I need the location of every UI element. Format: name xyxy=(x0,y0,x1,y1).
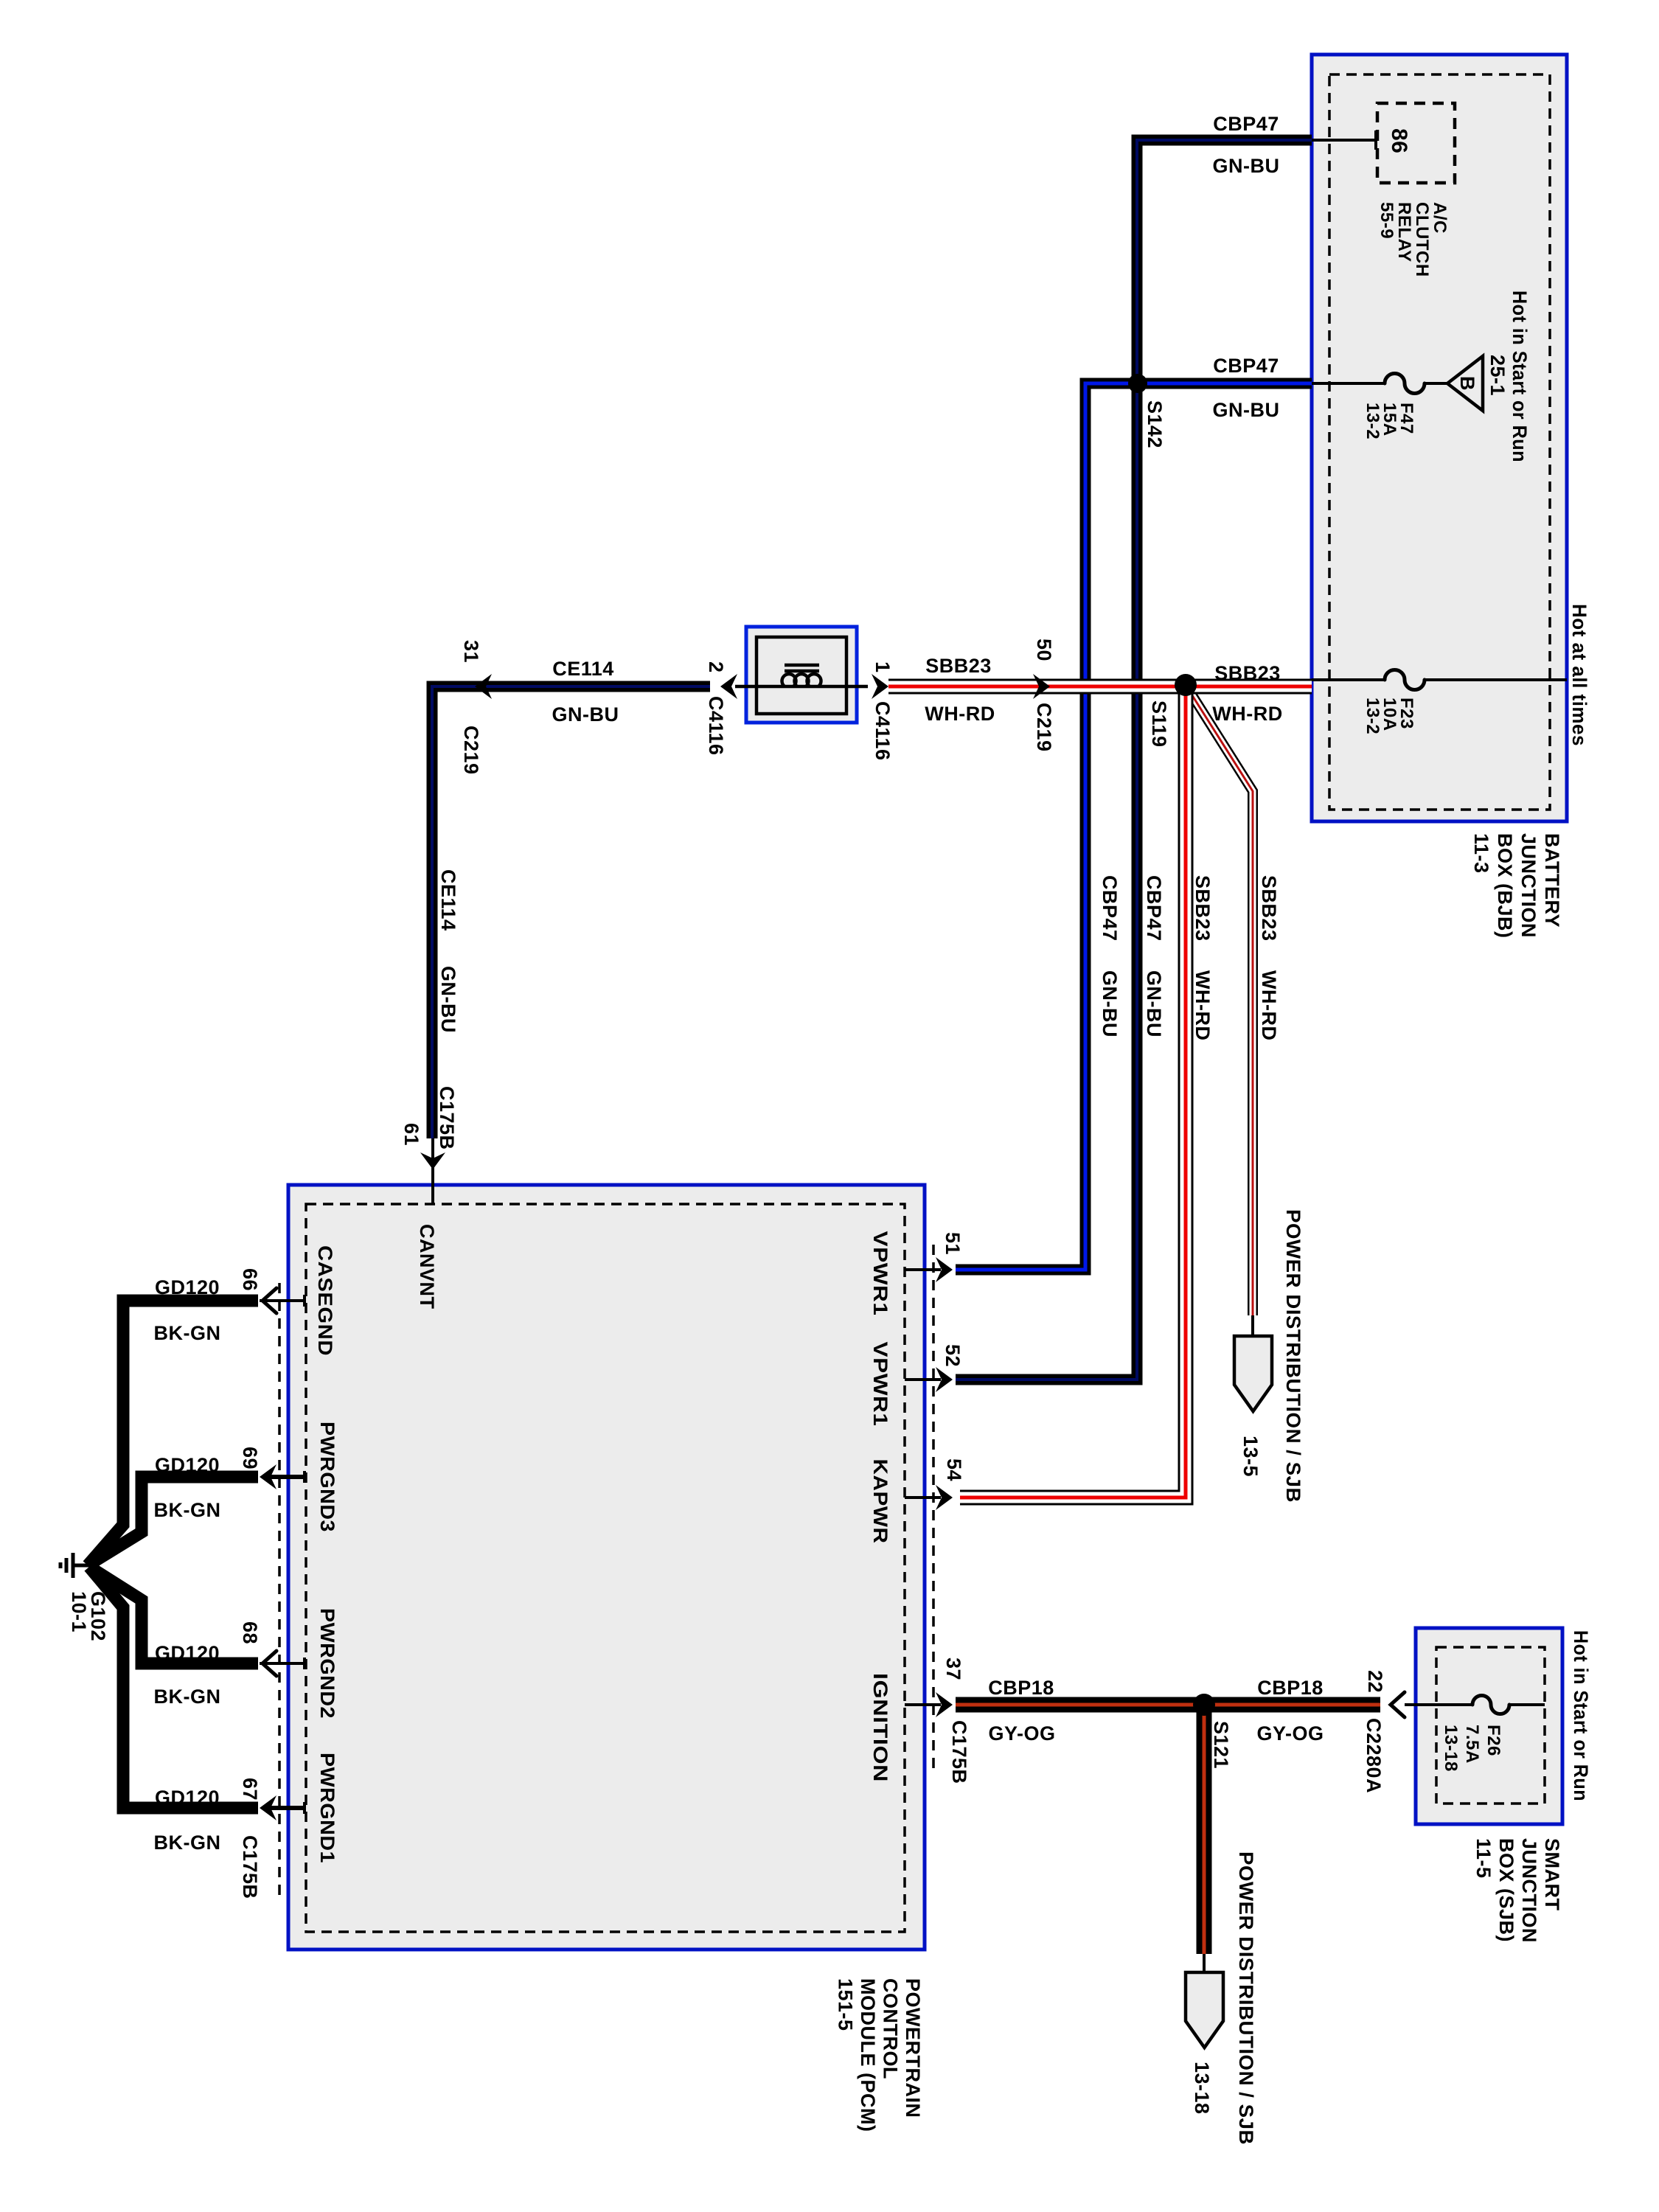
svg-text:37: 37 xyxy=(942,1658,964,1680)
svg-text:1: 1 xyxy=(872,661,894,673)
svg-text:VPWR1: VPWR1 xyxy=(869,1342,891,1427)
svg-text:GY-OG: GY-OG xyxy=(988,1722,1055,1745)
svg-text:GN-BU: GN-BU xyxy=(552,703,619,726)
svg-text:BK-GN: BK-GN xyxy=(154,1322,221,1344)
svg-text:GD120: GD120 xyxy=(155,1787,220,1809)
svg-text:VPWR1: VPWR1 xyxy=(869,1231,891,1316)
svg-text:GD120: GD120 xyxy=(155,1276,220,1298)
svg-text:BK-GN: BK-GN xyxy=(154,1686,221,1708)
svg-text:61: 61 xyxy=(400,1123,422,1146)
svg-text:CBP47: CBP47 xyxy=(1213,113,1279,135)
svg-text:31: 31 xyxy=(460,640,482,663)
svg-text:S119: S119 xyxy=(1148,700,1170,748)
svg-text:CANVNT: CANVNT xyxy=(416,1224,438,1310)
svg-text:GN-BU: GN-BU xyxy=(1143,970,1165,1037)
svg-text:SBB23: SBB23 xyxy=(1258,875,1280,942)
svg-text:52: 52 xyxy=(942,1344,964,1367)
svg-text:BK-GN: BK-GN xyxy=(154,1499,221,1521)
svg-text:C4116: C4116 xyxy=(705,696,727,756)
svg-text:13-5: 13-5 xyxy=(1239,1436,1262,1477)
svg-text:GD120: GD120 xyxy=(155,1454,220,1476)
svg-text:IGNITION: IGNITION xyxy=(869,1673,891,1782)
svg-text:CBP18: CBP18 xyxy=(1257,1677,1324,1699)
svg-text:66: 66 xyxy=(239,1268,261,1291)
svg-text:2: 2 xyxy=(705,661,727,673)
svg-text:25-1: 25-1 xyxy=(1486,355,1509,396)
svg-text:CE114: CE114 xyxy=(552,658,614,680)
svg-text:POWER DISTRIBUTION / SJB: POWER DISTRIBUTION / SJB xyxy=(1282,1209,1304,1503)
svg-text:B: B xyxy=(1456,376,1478,391)
svg-text:51: 51 xyxy=(942,1232,964,1255)
svg-text:SBB23: SBB23 xyxy=(1192,875,1214,942)
svg-text:C175B: C175B xyxy=(436,1086,458,1150)
svg-text:WH-RD: WH-RD xyxy=(1212,703,1282,725)
svg-text:13-18: 13-18 xyxy=(1191,2062,1213,2115)
svg-text:CBP47: CBP47 xyxy=(1143,875,1165,942)
svg-text:22: 22 xyxy=(1364,1670,1386,1693)
svg-text:C4116: C4116 xyxy=(872,701,894,761)
svg-text:C2280A: C2280A xyxy=(1363,1718,1385,1793)
svg-text:50: 50 xyxy=(1033,639,1055,661)
svg-text:CBP18: CBP18 xyxy=(988,1677,1054,1699)
svg-text:S142: S142 xyxy=(1144,400,1166,448)
svg-text:CBP47: CBP47 xyxy=(1099,875,1121,942)
svg-text:67: 67 xyxy=(239,1778,261,1801)
svg-text:Hot in Start or Run: Hot in Start or Run xyxy=(1570,1630,1592,1801)
svg-text:KAPWR: KAPWR xyxy=(869,1459,891,1544)
svg-text:Hot at all times: Hot at all times xyxy=(1568,604,1590,746)
svg-text:F2310A13-2: F2310A13-2 xyxy=(1363,698,1416,734)
svg-text:69: 69 xyxy=(239,1447,261,1470)
svg-text:WH-RD: WH-RD xyxy=(1192,970,1214,1040)
svg-text:CBP47: CBP47 xyxy=(1213,355,1279,377)
svg-text:Hot in Start or Run: Hot in Start or Run xyxy=(1509,291,1531,462)
svg-text:GN-BU: GN-BU xyxy=(1213,155,1280,177)
svg-text:54: 54 xyxy=(943,1458,965,1481)
svg-text:GN-BU: GN-BU xyxy=(1099,970,1121,1037)
svg-text:WH-RD: WH-RD xyxy=(1258,970,1280,1040)
svg-text:GD120: GD120 xyxy=(155,1642,220,1664)
svg-text:GN-BU: GN-BU xyxy=(1213,399,1280,421)
svg-text:WH-RD: WH-RD xyxy=(925,703,995,725)
svg-text:BK-GN: BK-GN xyxy=(154,1832,221,1854)
svg-text:CASEGND: CASEGND xyxy=(314,1245,336,1356)
svg-text:PWRGND1: PWRGND1 xyxy=(316,1753,338,1863)
svg-text:68: 68 xyxy=(239,1621,261,1644)
svg-text:C175B: C175B xyxy=(239,1835,261,1899)
svg-text:GY-OG: GY-OG xyxy=(1256,1722,1324,1745)
svg-text:CE114: CE114 xyxy=(437,869,459,931)
svg-text:C219: C219 xyxy=(1033,703,1055,752)
svg-text:SBB23: SBB23 xyxy=(925,655,992,677)
svg-text:GN-BU: GN-BU xyxy=(437,966,459,1033)
svg-text:PWRGND2: PWRGND2 xyxy=(316,1608,338,1719)
svg-text:POWER DISTRIBUTION / SJB: POWER DISTRIBUTION / SJB xyxy=(1235,1851,1257,2145)
svg-text:PWRGND3: PWRGND3 xyxy=(316,1422,338,1532)
svg-text:C175B: C175B xyxy=(948,1720,970,1784)
svg-text:SBB23: SBB23 xyxy=(1214,662,1281,684)
svg-text:86: 86 xyxy=(1387,128,1411,153)
svg-text:C219: C219 xyxy=(460,726,482,775)
svg-text:S121: S121 xyxy=(1210,1721,1232,1769)
svg-text:F4715A13-2: F4715A13-2 xyxy=(1363,403,1416,439)
